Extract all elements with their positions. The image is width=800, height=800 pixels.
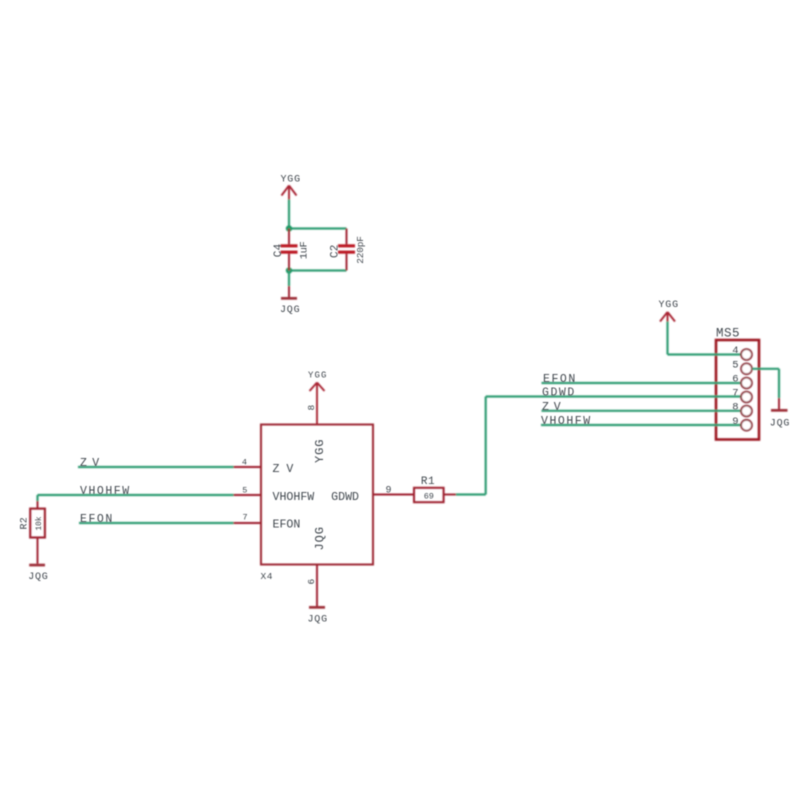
svg-text:6: 6 <box>732 374 738 386</box>
svg-text:8: 8 <box>306 405 317 411</box>
svg-text:YGG: YGG <box>659 300 679 311</box>
svg-text:Z: Z <box>80 457 87 470</box>
svg-text:GDWD: GDWD <box>542 386 576 399</box>
svg-text:220pF: 220pF <box>355 236 366 264</box>
svg-text:YGG: YGG <box>308 371 328 381</box>
svg-text:JQG: JQG <box>28 572 48 583</box>
svg-text:Z V: Z V <box>273 463 294 476</box>
svg-text:6: 6 <box>306 579 317 585</box>
svg-text:V: V <box>92 457 99 470</box>
svg-text:R1: R1 <box>421 476 435 488</box>
svg-text:X4: X4 <box>261 571 273 582</box>
svg-text:EFON: EFON <box>543 373 577 386</box>
svg-text:C4: C4 <box>273 243 285 257</box>
svg-text:4: 4 <box>242 457 247 467</box>
svg-text:YGG: YGG <box>313 439 327 463</box>
svg-text:1uF: 1uF <box>299 241 311 259</box>
svg-text:MS5: MS5 <box>716 327 740 341</box>
svg-text:JQG: JQG <box>280 305 300 316</box>
svg-text:8: 8 <box>732 402 738 414</box>
svg-text:5: 5 <box>732 359 738 371</box>
svg-text:EFON: EFON <box>80 513 114 526</box>
svg-text:5: 5 <box>242 485 247 495</box>
svg-text:7: 7 <box>732 388 738 400</box>
svg-text:10k: 10k <box>36 516 44 530</box>
svg-text:EFON: EFON <box>273 519 301 532</box>
svg-text:YGG: YGG <box>281 174 301 185</box>
svg-text:GDWD: GDWD <box>331 491 359 504</box>
svg-text:9: 9 <box>732 416 738 428</box>
svg-text:JQG: JQG <box>770 419 790 430</box>
svg-text:JQG: JQG <box>313 526 327 550</box>
svg-text:C2: C2 <box>330 244 342 258</box>
svg-text:VHOHFW: VHOHFW <box>541 415 592 428</box>
svg-text:69: 69 <box>424 491 434 501</box>
svg-text:9: 9 <box>385 486 391 497</box>
svg-text:7: 7 <box>242 512 247 522</box>
svg-text:JQG: JQG <box>308 615 328 626</box>
svg-text:V: V <box>554 401 561 414</box>
svg-text:VHOHFW: VHOHFW <box>80 485 131 498</box>
svg-text:VHOHFW: VHOHFW <box>273 491 315 504</box>
svg-text:Z: Z <box>542 401 549 414</box>
svg-text:4: 4 <box>732 345 738 357</box>
svg-text:R2: R2 <box>20 517 31 530</box>
